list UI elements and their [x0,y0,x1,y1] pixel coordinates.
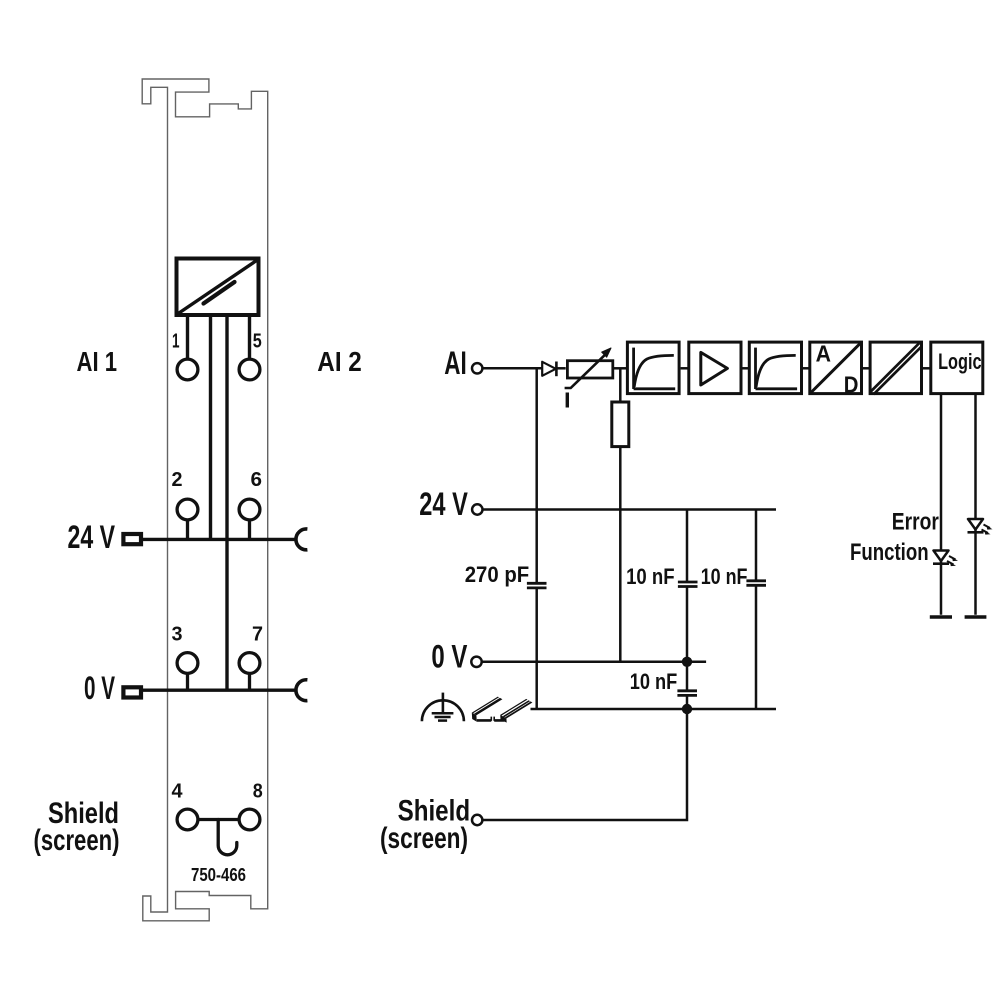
A/D converter block [810,340,862,397]
svg-text:Logic: Logic [938,349,982,374]
svg-text:(screen): (screen) [34,824,120,857]
wire logic to function LED [940,394,943,615]
wire resistor junction down [619,368,622,402]
amplifier block [689,342,741,394]
svg-text:10 nF: 10 nF [626,564,675,589]
wire [681,367,689,370]
terminal 1 [177,359,198,380]
svg-text:0 V: 0 V [84,670,115,706]
svg-text:D: D [844,372,859,398]
svg-text:1: 1 [172,331,180,353]
svg-text:7: 7 [252,624,263,646]
adjustable resistor R1 (current limiter) [565,348,613,388]
wire [803,367,810,370]
svg-text:8: 8 [253,781,263,803]
filter block 2 [749,342,801,394]
module outline 750-466 [142,79,268,921]
logic block [931,342,983,394]
LED function [933,551,958,567]
shield hook [218,820,237,855]
svg-text:10 nF: 10 nF [701,564,748,589]
filter block 1 [627,342,679,394]
svg-text:Error: Error [892,509,939,536]
wire box to terminal 5 [248,317,251,358]
wire logic to error LED [974,394,977,615]
0V rail (schematic) [482,661,706,664]
LED terminal bar (error) [965,615,987,619]
svg-text:(screen): (screen) [380,822,468,855]
junction dot ground rail [682,704,692,714]
24V rail (schematic) [483,508,776,511]
svg-text:10 nF: 10 nF [630,669,678,694]
wire AI node to diode [483,367,543,370]
0V power rail (module) [142,689,296,692]
0V power jumper contact [296,680,307,701]
svg-text:2: 2 [172,469,183,491]
LED error [968,519,993,535]
wire resistor to filter block [614,367,627,370]
24V power jumper contact [296,529,307,550]
terminal 4 [177,809,198,830]
svg-text:AI: AI [444,345,467,381]
capacitor 270pF [527,583,547,709]
wire [743,367,750,370]
wire box to terminal 1 [186,317,189,358]
resistor R2 (vertical) [612,402,629,447]
0V terminal square [123,687,141,697]
junction dot 0V rail [682,657,692,667]
node 0V [471,657,481,667]
24V power rail (module) [142,538,296,541]
capacitor 10nF (24V to ground) [746,510,766,710]
capacitor 10nF (0V to ground) [677,662,697,709]
wire [922,367,931,370]
svg-text:Function: Function [850,539,929,566]
capacitor 10nF (24V to 0V) [678,510,698,662]
ground rail [531,708,777,711]
wire resistor to 0V rail [619,447,622,662]
shield connection wire [483,709,688,820]
LED terminal bar (function) [930,615,952,619]
svg-text:270 pF: 270 pF [465,562,530,587]
terminal 8 [239,809,260,830]
node AI [472,363,482,373]
terminal 2 [177,499,198,520]
wire AI junction down (270pF branch) [535,368,538,584]
earth ground symbol [422,693,464,722]
isolation block [870,342,922,394]
terminal 7 [239,653,260,674]
svg-text:24 V: 24 V [68,519,116,555]
converter box U1 (module) [177,259,259,316]
svg-text:0 V: 0 V [431,639,467,675]
svg-text:A: A [816,340,831,366]
terminal 3 [177,653,198,674]
wire box to 24V rail [209,317,212,539]
24V terminal square [123,534,141,544]
svg-text:AI 1: AI 1 [77,346,118,377]
wire [862,367,871,370]
DIN rail icon [472,697,533,723]
svg-text:4: 4 [172,781,184,803]
svg-text:24 V: 24 V [419,486,468,522]
svg-text:5: 5 [253,331,262,353]
wire box to 0V rail [225,317,228,690]
svg-text:6: 6 [251,469,263,491]
svg-text:750-466: 750-466 [191,865,246,885]
shield jumper wire terminals 4-8 [198,818,239,821]
wire diode to resistor [556,367,566,370]
label I (current) [566,393,569,408]
svg-text:3: 3 [172,624,183,646]
terminal 6 [239,499,260,520]
svg-text:AI 2: AI 2 [317,346,362,377]
diode D1 [542,362,556,377]
node 24V [472,504,482,514]
terminal 5 [239,359,260,380]
node Shield [472,815,482,825]
